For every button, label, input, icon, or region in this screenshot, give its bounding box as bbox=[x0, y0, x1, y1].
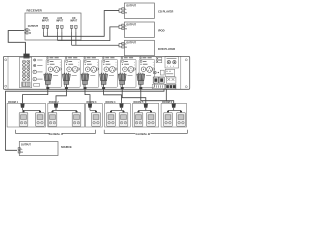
RCA jack pair row 4 bbox=[23, 71, 26, 74]
mixer channel 3 top switch bbox=[84, 57, 86, 59]
wire AUX input to iPod bbox=[58, 27, 120, 41]
ROOM 5 wire split to speakers bbox=[145, 108, 147, 111]
ROOM 4 speaker connector bbox=[123, 111, 125, 113]
mixer channel 2 top label bbox=[68, 57, 72, 59]
mixer channel 2 cable exit bbox=[65, 84, 67, 89]
wireless speaker unit bbox=[48, 113, 57, 127]
ROOM 2 input plug bbox=[54, 104, 58, 108]
mixer channel 6 top label bbox=[143, 57, 147, 59]
wireless speaker unit bbox=[134, 113, 143, 127]
speaker terminal recess R bbox=[159, 77, 164, 83]
svg-text:OUTPUT: OUTPUT bbox=[28, 25, 39, 28]
mixer channel 5 aux jack bbox=[134, 68, 136, 70]
mixer channel 3 cable exit bbox=[84, 84, 86, 89]
mixer channel 4 top switch bbox=[102, 57, 104, 59]
receiver AUX input pin L bbox=[57, 28, 59, 32]
DVD PLAYER output terminal R bbox=[122, 46, 124, 48]
mixer channel 1 cable exit bbox=[47, 84, 49, 89]
mixer channel 5 XLR jack bbox=[128, 67, 134, 73]
mixer channel 2 lower text bbox=[72, 75, 77, 77]
mixer channel 1 top switch bbox=[47, 57, 49, 59]
mixer channel 6 top switch bbox=[140, 57, 142, 59]
svg-text:IPOD: IPOD bbox=[158, 29, 165, 33]
wire CD input to DVD player bbox=[72, 44, 119, 46]
wire mixer channel 2 to room 2 bbox=[56, 89, 66, 103]
master small module bbox=[160, 70, 164, 75]
output terminal block bbox=[165, 84, 176, 89]
svg-text:ROOM 4: ROOM 4 bbox=[106, 101, 116, 104]
mixer channel 1 XLR jack bbox=[54, 67, 60, 73]
voltage selector bbox=[166, 77, 176, 83]
speaker terminal recess L bbox=[153, 77, 158, 83]
RCA jack pair row 3 bbox=[23, 67, 26, 70]
svg-text:GLOBAL B: GLOBAL B bbox=[136, 132, 151, 136]
wire mixer channel 5 to room 5 bbox=[122, 89, 146, 103]
wireless speaker unit bbox=[119, 113, 128, 127]
ROOM 3 wire split to speakers bbox=[89, 108, 91, 111]
rack screw hole top-right bbox=[185, 59, 187, 61]
wire mixer channel 3 to room 3 bbox=[85, 89, 90, 103]
mixer channel 5 XLR cable plug bbox=[120, 73, 121, 74]
mixer channel 3 XLR cable plug bbox=[82, 73, 83, 74]
wireless speaker unit bbox=[164, 113, 173, 127]
mixer channel 6 level knob bbox=[141, 67, 146, 72]
receiver CD input pin L bbox=[71, 28, 73, 32]
wire mixer channel 4 to room 4 bbox=[104, 89, 122, 103]
wire AUX input pins drop bbox=[57, 32, 59, 41]
mixer channel 5 level knob bbox=[123, 67, 128, 72]
DVD PLAYER box bbox=[124, 40, 154, 55]
ROOM 3 group box bbox=[86, 103, 103, 127]
mixer right rack ear inner edge bbox=[180, 56, 182, 89]
master knob R bbox=[173, 61, 176, 64]
receiver DVD input pin L bbox=[42, 28, 44, 32]
CD PLAYER output terminal R bbox=[122, 11, 124, 13]
mixer channel 6 panel box bbox=[139, 59, 155, 87]
ROOM 2 group box bbox=[48, 103, 85, 127]
mixer chassis bbox=[3, 56, 189, 89]
wireless speaker unit bbox=[177, 113, 186, 127]
svg-text:INPUT: INPUT bbox=[42, 20, 49, 22]
ROOM 2 wire split to speakers bbox=[55, 108, 57, 111]
source box bbox=[19, 142, 58, 156]
mixer left rack ear inner edge bbox=[7, 56, 9, 89]
RCA jack pair row 5 bbox=[23, 74, 26, 77]
svg-text:CD PLAYER: CD PLAYER bbox=[158, 10, 173, 14]
ROOM 4 input plug bbox=[119, 104, 123, 108]
wireless speaker unit bbox=[36, 113, 45, 127]
wireless speaker unit bbox=[147, 113, 156, 127]
mixer channel 5 lower text bbox=[128, 75, 133, 77]
DVD PLAYER output terminal L bbox=[122, 43, 124, 45]
svg-text:RECEIVER: RECEIVER bbox=[27, 9, 43, 13]
receiver CD input terminal L bbox=[70, 25, 72, 28]
wire DVD input to CD player bbox=[43, 11, 119, 37]
ROOM 1 wire split to speakers bbox=[22, 108, 24, 111]
bracket GLOBAL A bbox=[16, 130, 51, 134]
mixer channel 3 indicator row bbox=[84, 61, 86, 63]
jack strip lower connector block bbox=[22, 82, 30, 87]
svg-text:GLOBAL A: GLOBAL A bbox=[49, 132, 63, 136]
mixer channel 1 top label bbox=[50, 57, 54, 59]
wireless speaker unit bbox=[107, 113, 116, 127]
svg-text:OUTPUT: OUTPUT bbox=[126, 23, 136, 26]
mixer channel 3 lower text bbox=[90, 75, 95, 77]
mixer channel 2 panel box bbox=[65, 59, 81, 87]
source output terminal L bbox=[18, 148, 20, 150]
wire master speaker terminal drop bbox=[165, 89, 167, 101]
mixer channel 6 aux jack bbox=[152, 68, 154, 70]
receiver DVD input terminal R bbox=[46, 25, 48, 28]
wireless speaker unit bbox=[92, 113, 101, 127]
wire mixer channel 6 to room 6 bbox=[141, 89, 174, 103]
ROOM 2 speaker connector bbox=[76, 111, 78, 113]
mixer channel 4 indicator row bbox=[103, 61, 105, 63]
receiver AUX input terminal L bbox=[56, 25, 58, 28]
rack screw hole bottom-left bbox=[5, 85, 7, 87]
svg-text:AUX: AUX bbox=[57, 17, 62, 20]
svg-text:ROOM 6: ROOM 6 bbox=[162, 101, 172, 104]
ROOM 6 speaker connector bbox=[167, 111, 169, 113]
receiver CD input terminal R bbox=[75, 25, 77, 28]
receiver CD input pin R bbox=[75, 28, 77, 32]
ROOM 6 group box bbox=[161, 103, 186, 127]
mixer channel 6 lower text bbox=[146, 75, 151, 77]
ROOM 1 speaker connector bbox=[39, 111, 41, 113]
ROOM 5 group box bbox=[133, 103, 159, 127]
mixer channel 6 XLR cable plug bbox=[138, 73, 139, 74]
RCA jack pair row 1 bbox=[23, 60, 26, 63]
mixer channel 1 level knob bbox=[48, 67, 53, 72]
mixer channel 5 top label bbox=[124, 57, 128, 59]
line level column bottom switch bbox=[34, 84, 40, 87]
ROOM 1 input plug bbox=[20, 104, 24, 108]
vent slots bbox=[152, 84, 165, 88]
IPOD terminal bridge bbox=[119, 25, 122, 28]
mixer channel 6 indicator row bbox=[140, 61, 142, 63]
mixer channel 6 XLR jack bbox=[147, 67, 153, 73]
ROOM 6 speaker connector bbox=[180, 111, 182, 113]
ROOM 4 speaker connector bbox=[110, 111, 112, 113]
ROOM 2 speaker connector bbox=[52, 111, 54, 113]
mixer channel 4 XLR jack bbox=[109, 67, 115, 73]
rack screw hole bottom-right bbox=[185, 86, 187, 88]
mixer channel 3 panel box bbox=[83, 59, 99, 87]
mixer channel 1 panel box bbox=[46, 59, 62, 87]
mixer channel 2 aux jack bbox=[78, 68, 80, 70]
mixer channel 5 cable exit bbox=[121, 84, 123, 89]
mixer channel 3 level knob bbox=[85, 67, 90, 72]
ROOM 4 wire split to speakers bbox=[121, 108, 123, 111]
IPOD output terminal R bbox=[122, 27, 124, 29]
DVD PLAYER terminal bridge bbox=[119, 44, 122, 47]
mixer channel 4 panel box bbox=[102, 59, 118, 87]
master switch dot bbox=[158, 72, 159, 73]
svg-text:ROOM 5: ROOM 5 bbox=[134, 101, 144, 104]
mixer channel 4 aux jack bbox=[115, 68, 117, 70]
mixer channel 1 lower text bbox=[53, 75, 58, 77]
svg-text:SOURCE: SOURCE bbox=[61, 146, 72, 149]
CD PLAYER output terminal L bbox=[122, 8, 124, 10]
RCA jack pair row 6 bbox=[23, 78, 26, 81]
CD PLAYER box bbox=[124, 3, 154, 18]
receiver DVD input terminal L bbox=[42, 25, 44, 28]
line input jack strip panel bbox=[20, 57, 32, 88]
mixer channel 3 aux jack bbox=[96, 68, 98, 70]
mixer channel 5 top switch bbox=[121, 57, 123, 59]
svg-text:INPUT: INPUT bbox=[70, 20, 77, 22]
mixer channel 4 XLR cable plug bbox=[101, 73, 102, 74]
source output terminal R bbox=[18, 151, 20, 153]
svg-text:ROOM 2: ROOM 2 bbox=[49, 101, 59, 104]
svg-text:OUTPUT: OUTPUT bbox=[126, 42, 136, 45]
svg-text:OUTPUT: OUTPUT bbox=[126, 4, 136, 7]
ROOM 1 group box bbox=[7, 103, 45, 127]
receiver DVD input pin R bbox=[46, 28, 48, 32]
mixer channel 1 aux jack bbox=[59, 68, 61, 70]
ROOM 5 speaker connector bbox=[138, 111, 140, 113]
svg-text:DVD PLAYER: DVD PLAYER bbox=[158, 47, 175, 51]
mixer channel 4 top label bbox=[105, 57, 109, 59]
master section switches bbox=[156, 57, 162, 59]
svg-text:ROOM 1: ROOM 1 bbox=[8, 101, 18, 104]
wire master out to source box (long run) bbox=[6, 89, 165, 150]
svg-text:ROOM 3: ROOM 3 bbox=[87, 101, 97, 104]
mixer channel 2 top switch bbox=[65, 57, 67, 59]
ROOM 5 speaker connector bbox=[150, 111, 152, 113]
line input RCA plug from receiver bbox=[23, 54, 29, 59]
receiver AUX input terminal R bbox=[61, 25, 63, 28]
receiver output terminal L bbox=[26, 29, 28, 31]
master mid module B bbox=[165, 69, 175, 76]
wireless speaker unit bbox=[19, 113, 28, 127]
RCA jack pair row 2 bbox=[23, 64, 26, 67]
mixer channel 3 XLR jack bbox=[91, 67, 97, 73]
wire CD input pins drop bbox=[71, 32, 73, 45]
mixer channel 2 indicator row bbox=[66, 61, 68, 63]
svg-text:OUTPUT: OUTPUT bbox=[21, 144, 31, 147]
ROOM 6 wire split to speakers bbox=[173, 108, 175, 111]
IPOD output terminal L bbox=[122, 24, 124, 26]
mixer channel 1 XLR cable plug bbox=[45, 73, 46, 74]
receiver output terminal R bbox=[26, 32, 28, 34]
line level knob column bbox=[34, 59, 36, 61]
master knob L bbox=[167, 61, 170, 64]
wire DVD input pins drop bbox=[42, 32, 44, 36]
CD PLAYER terminal bridge bbox=[119, 9, 122, 12]
mixer channel 3 top label bbox=[87, 57, 91, 59]
rack screw hole top-left bbox=[5, 59, 7, 61]
IPOD box bbox=[124, 22, 154, 37]
wire receiver output to mixer line-in jacks bbox=[24, 29, 26, 31]
mixer channel 6 cable exit bbox=[140, 84, 142, 89]
mixer channel 1 indicator row bbox=[47, 61, 49, 63]
ROOM 3 input plug bbox=[88, 104, 92, 108]
mixer channel 4 lower text bbox=[109, 75, 114, 77]
svg-text:INPUT: INPUT bbox=[56, 20, 63, 22]
master phones jack bbox=[153, 71, 156, 74]
wire mixer channel 1 to room 1 bbox=[23, 89, 48, 103]
bracket GLOBAL B bbox=[104, 130, 135, 134]
ROOM 6 input plug bbox=[172, 104, 176, 108]
master knobs box bbox=[165, 57, 179, 68]
ROOM 4 group box bbox=[105, 103, 131, 127]
mixer channel 4 cable exit bbox=[103, 84, 105, 89]
mixer channel 4 level knob bbox=[104, 67, 109, 72]
mixer channel 5 indicator row bbox=[122, 61, 124, 63]
mixer channel 2 level knob bbox=[67, 67, 72, 72]
mixer channel 5 panel box bbox=[121, 59, 137, 87]
receiver AUX input pin R bbox=[61, 28, 63, 32]
mixer channel 2 XLR jack bbox=[72, 67, 78, 73]
mixer channel 2 XLR cable plug bbox=[64, 73, 65, 74]
wireless speaker unit bbox=[72, 113, 81, 127]
receiver box bbox=[25, 13, 81, 40]
ROOM 3 speaker connector bbox=[95, 111, 97, 113]
ROOM 5 input plug bbox=[144, 104, 148, 108]
ROOM 1 speaker connector bbox=[23, 111, 25, 113]
